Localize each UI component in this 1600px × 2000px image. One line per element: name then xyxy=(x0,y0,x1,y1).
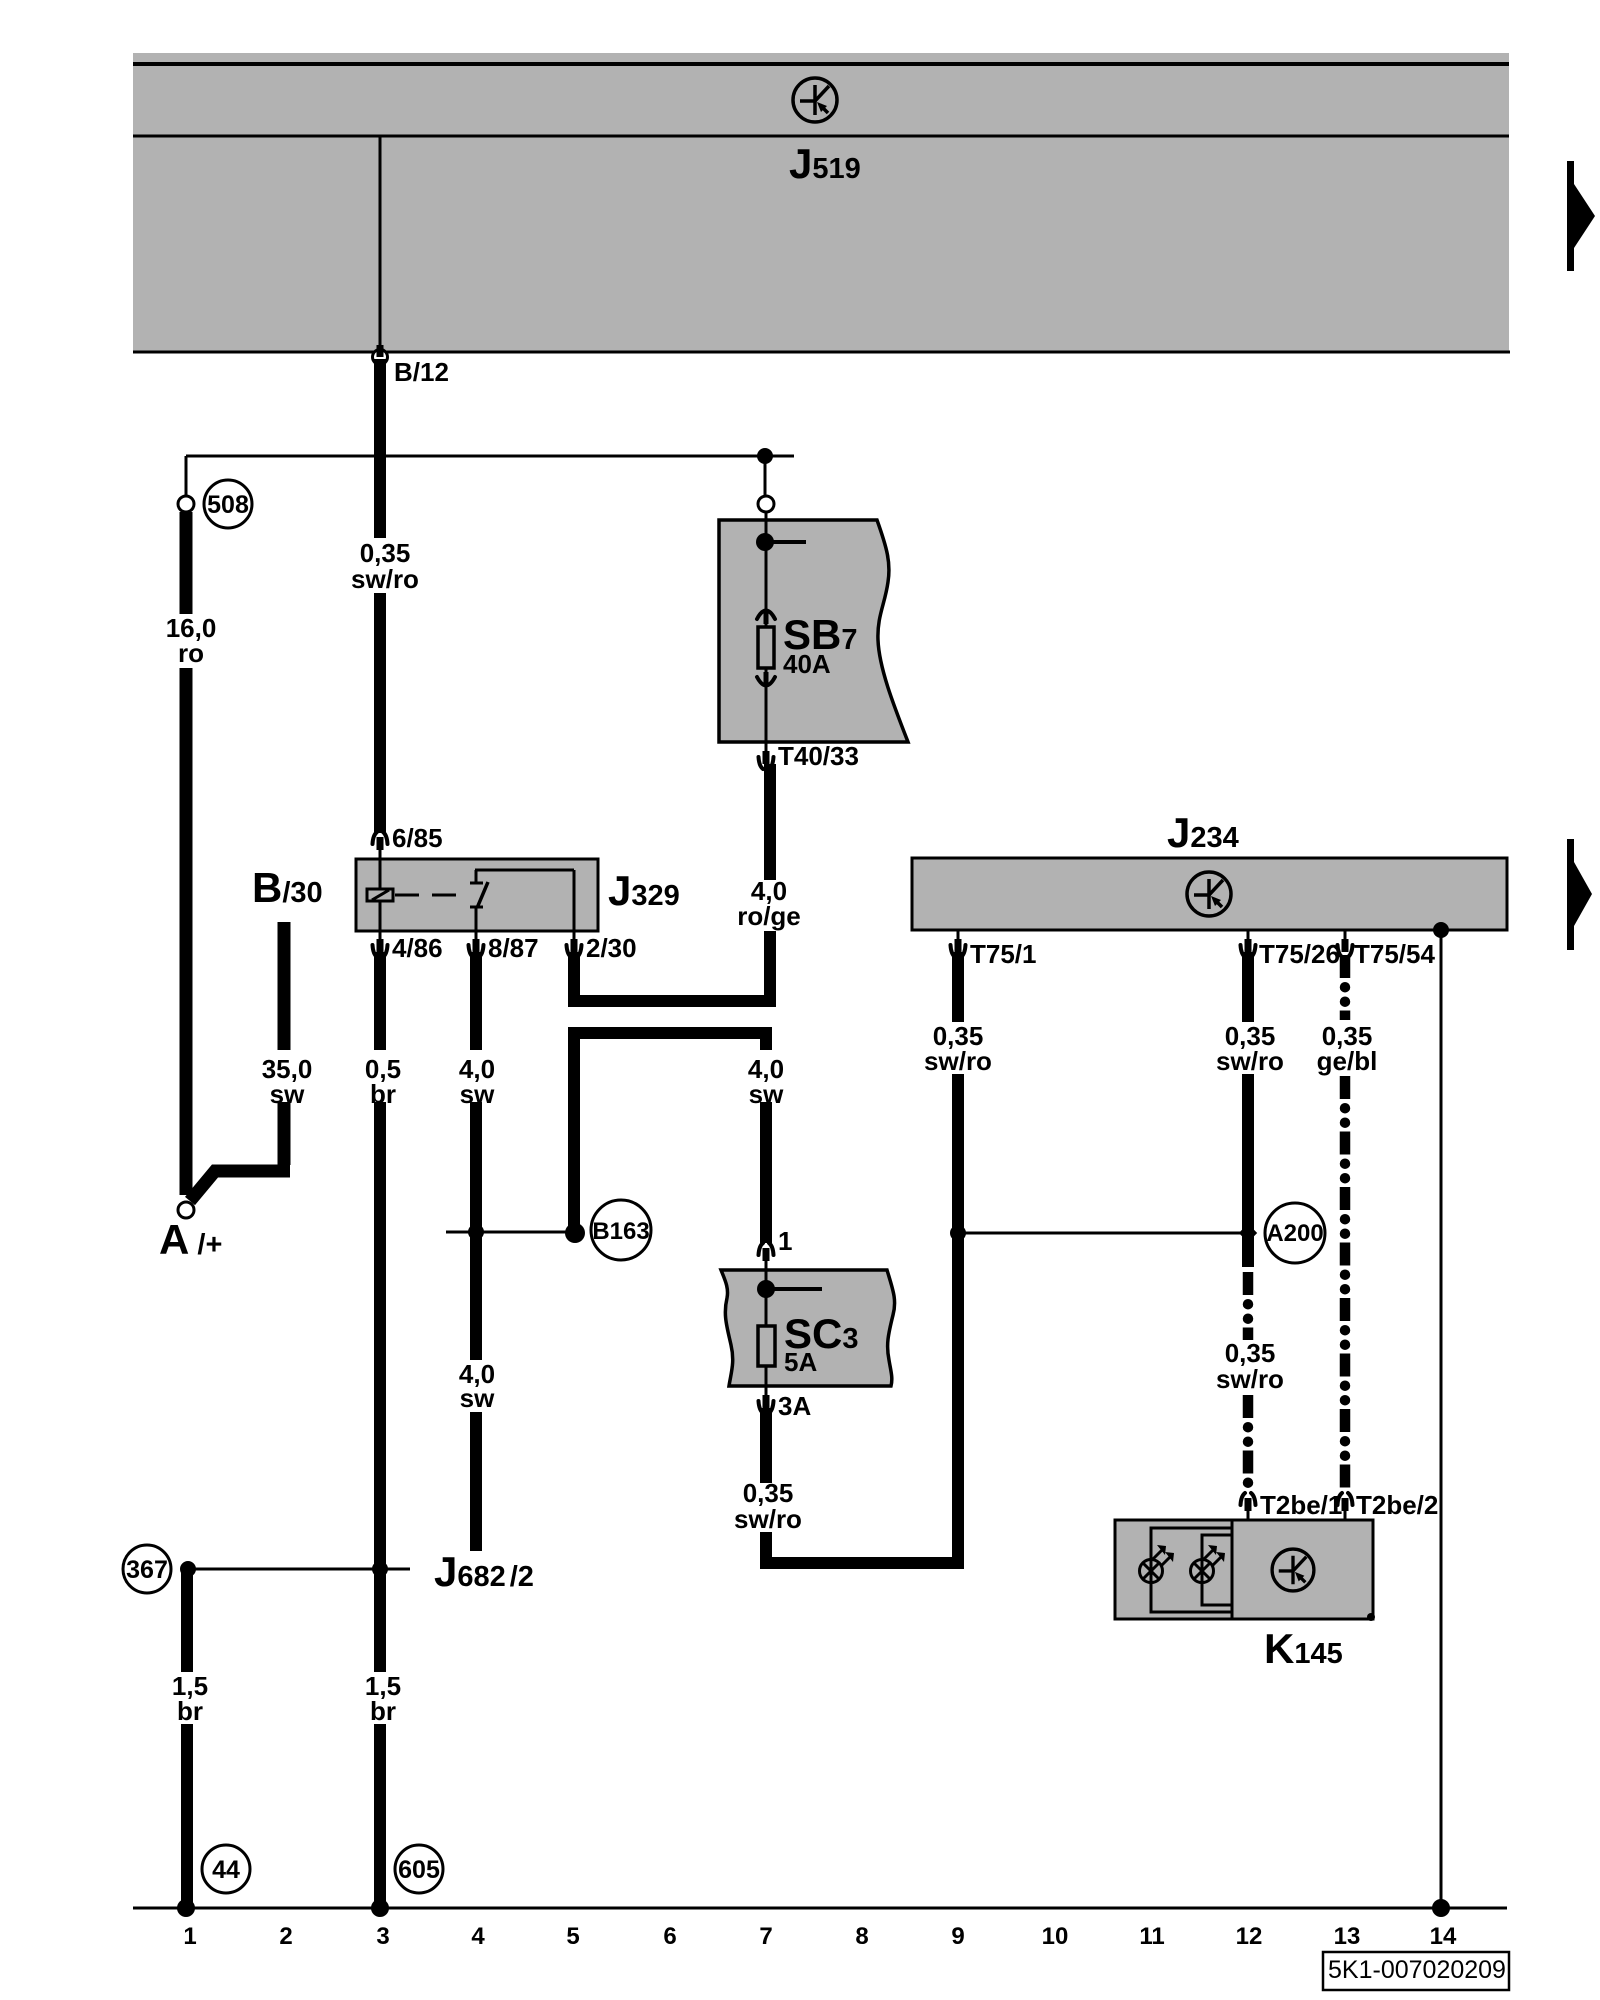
svg-text:br: br xyxy=(177,1696,203,1726)
svg-text:13: 13 xyxy=(1334,1923,1361,1950)
wire 4,0 sw from 8/87 xyxy=(470,952,482,1050)
ground rail (earth bus line) xyxy=(133,1907,1507,1910)
track numbers xyxy=(183,1923,1457,1950)
lamp unit K145 box xyxy=(1115,1520,1373,1619)
pin 1 into SC3 xyxy=(759,1243,774,1270)
svg-text:7: 7 xyxy=(759,1923,772,1950)
svg-text:T2be/2: T2be/2 xyxy=(1356,1490,1438,1520)
wire from 2/30 to fuse feed xyxy=(574,952,776,1001)
svg-text:sw/ro: sw/ro xyxy=(1216,1364,1284,1394)
fuse box SC3 xyxy=(721,1270,895,1386)
svg-text:sw/ro: sw/ro xyxy=(1216,1046,1284,1076)
fuse box SB7 xyxy=(719,520,908,742)
wire 1,5 br left xyxy=(181,1569,193,1672)
control unit symbol J519 xyxy=(793,78,837,122)
wire 16,0 ro xyxy=(180,512,193,614)
svg-text:4/86: 4/86 xyxy=(392,933,443,963)
ground node 605 xyxy=(395,1845,443,1893)
terminal circle 508 wire top xyxy=(178,496,194,512)
svg-text:9: 9 xyxy=(951,1923,964,1950)
wire T75/26: 0,35 sw/ro solid then dash-dot xyxy=(1242,952,1254,1022)
ground node 44 xyxy=(202,1845,250,1893)
svg-text:T40/33: T40/33 xyxy=(778,741,859,771)
connector B/12 xyxy=(373,350,388,365)
svg-text:6/85: 6/85 xyxy=(392,823,443,853)
svg-text:6: 6 xyxy=(663,1923,676,1950)
svg-text:ge/bl: ge/bl xyxy=(1317,1046,1378,1076)
svg-text:12: 12 xyxy=(1236,1923,1263,1950)
continuation arrow right middle xyxy=(1567,839,1592,950)
node A200 junction xyxy=(950,1225,966,1241)
svg-text:11: 11 xyxy=(1139,1923,1164,1950)
pin 8/87 xyxy=(469,930,484,957)
wire bar2: switched output xyxy=(574,1033,772,1227)
svg-text:ro/ge: ro/ge xyxy=(737,901,801,931)
svg-text:40A: 40A xyxy=(783,649,831,679)
svg-text:sw/ro: sw/ro xyxy=(351,564,419,594)
control unit symbol in K145 xyxy=(1272,1549,1314,1591)
wire 4,0 ro/ge xyxy=(764,764,776,880)
wire 0,5 br from 4/86 xyxy=(374,952,386,1050)
junction xyxy=(757,448,773,464)
node B163 xyxy=(565,1223,585,1243)
pin 4/86 xyxy=(373,930,388,957)
svg-text:508: 508 xyxy=(207,491,249,519)
svg-text:1: 1 xyxy=(778,1226,792,1256)
svg-text:44: 44 xyxy=(212,1856,240,1884)
svg-text:3A: 3A xyxy=(778,1391,811,1421)
svg-text:367: 367 xyxy=(126,1556,168,1584)
svg-text:10: 10 xyxy=(1042,1923,1069,1950)
lamp 1 xyxy=(1140,1545,1175,1583)
relay J329 box xyxy=(356,859,598,931)
svg-text:8/87: 8/87 xyxy=(488,933,539,963)
svg-text:sw/ro: sw/ro xyxy=(734,1504,802,1534)
pin T75/26 xyxy=(1241,930,1256,957)
svg-text:T75/54: T75/54 xyxy=(1354,939,1435,969)
SB7 top terminal xyxy=(758,496,774,512)
fuse SB7 symbol xyxy=(757,611,775,620)
pin T2be/2 xyxy=(1338,1493,1353,1520)
wire T75/54: 0,35 ge/bl dash-dot xyxy=(1340,955,1351,1020)
svg-text:T75/26: T75/26 xyxy=(1259,939,1340,969)
junction on J234 bottom edge xyxy=(1433,922,1449,938)
svg-text:sw/ro: sw/ro xyxy=(924,1046,992,1076)
wire 0,35 sw/ro from SC3 to J234 T75/1 xyxy=(760,1408,772,1483)
svg-text:T2be/1: T2be/1 xyxy=(1260,1490,1342,1520)
svg-text:4: 4 xyxy=(471,1923,485,1950)
control unit J519 (onboard supply control unit) box xyxy=(133,53,1509,353)
relay coil xyxy=(367,889,393,901)
switch contact xyxy=(470,882,483,885)
svg-text:14: 14 xyxy=(1430,1923,1457,1950)
svg-text:1: 1 xyxy=(183,1923,196,1950)
pin 3A xyxy=(759,1386,774,1413)
svg-text:5K1-007020209: 5K1-007020209 xyxy=(1328,1956,1506,1984)
wire B/12 down (0,35 sw/ro) xyxy=(374,359,386,538)
pin 6/85 xyxy=(373,832,388,859)
pin T40/33 xyxy=(759,742,774,769)
node circle 508 xyxy=(204,480,252,528)
svg-text:A200: A200 xyxy=(1266,1220,1323,1247)
svg-text:5: 5 xyxy=(566,1923,579,1950)
svg-text:2: 2 xyxy=(279,1923,292,1950)
continuation arrow right top xyxy=(1567,161,1595,271)
svg-text:B163: B163 xyxy=(592,1218,649,1245)
pin T2be/1 xyxy=(1241,1493,1256,1520)
svg-text:br: br xyxy=(370,1696,396,1726)
dashed actuate line xyxy=(395,894,465,897)
node 30-feed thin line xyxy=(186,455,794,458)
drawing number box xyxy=(1323,1952,1509,1990)
svg-text:8: 8 xyxy=(855,1923,868,1950)
control unit J234 box xyxy=(912,858,1507,930)
ground node 367 xyxy=(123,1545,171,1593)
svg-text:605: 605 xyxy=(398,1856,440,1884)
svg-text:2/30: 2/30 xyxy=(586,933,637,963)
pin T75/54 xyxy=(1338,930,1353,957)
svg-text:B/12: B/12 xyxy=(394,357,449,387)
svg-text:3: 3 xyxy=(376,1923,389,1950)
svg-text:ro: ro xyxy=(178,638,204,668)
lamp 2 xyxy=(1191,1545,1226,1583)
svg-text:sw: sw xyxy=(460,1383,495,1413)
pin T75/1 xyxy=(951,930,966,957)
relay internals: wire through xyxy=(379,851,382,930)
svg-text:T75/1: T75/1 xyxy=(970,939,1037,969)
wire 35,0 sw xyxy=(278,922,291,1050)
terminal A /+ xyxy=(178,1202,194,1218)
pin 2/30 xyxy=(567,930,582,957)
wire inside J519 to pin B/12 xyxy=(379,136,382,350)
svg-text:5A: 5A xyxy=(784,1347,817,1377)
svg-text:sw: sw xyxy=(749,1079,784,1109)
